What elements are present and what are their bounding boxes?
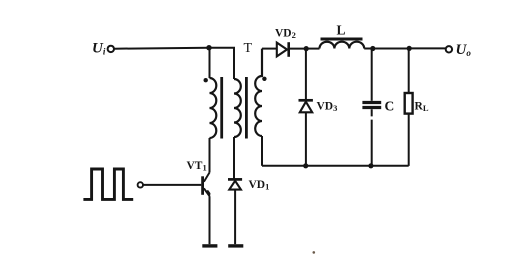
diode VD1 bbox=[228, 178, 242, 181]
caption speck bbox=[313, 251, 316, 254]
ground (emitter) bbox=[202, 244, 217, 247]
winding W2 middle bbox=[234, 79, 241, 137]
wire: RL down to bottom rail bbox=[408, 114, 410, 166]
svg-text:VD1: VD1 bbox=[249, 179, 270, 192]
wire: VD3 to node E bbox=[305, 112, 307, 166]
svg-text:VD2: VD2 bbox=[275, 28, 296, 41]
output terminal Uo bbox=[446, 46, 452, 52]
wire: drive terminal to base bbox=[143, 184, 201, 186]
svg-text:L: L bbox=[337, 23, 346, 38]
svg-text:VT1: VT1 bbox=[187, 160, 207, 173]
polarity dot W1 bbox=[204, 78, 208, 82]
node E bbox=[303, 163, 308, 168]
wire: collector to winding W1 bbox=[209, 138, 211, 173]
square wave source bbox=[83, 169, 133, 199]
winding W1 left bbox=[210, 78, 217, 138]
core bar 2 bbox=[245, 77, 248, 139]
inductor L coil bbox=[320, 42, 365, 49]
inductor L core bar bbox=[321, 38, 363, 41]
svg-text:C: C bbox=[385, 99, 395, 114]
winding W3 secondary bbox=[255, 49, 262, 136]
node C bbox=[370, 46, 375, 51]
wire: winding W2 bottom to VD1 bbox=[233, 137, 235, 179]
wire: inductor to node C bbox=[364, 48, 373, 50]
input terminal Ui bbox=[108, 46, 114, 52]
wire: VD1 to ground bbox=[234, 190, 236, 245]
drive terminal bbox=[138, 182, 143, 187]
wire: Ui terminal to node A bbox=[114, 48, 209, 49]
wire: VD2 to node B bbox=[289, 48, 307, 50]
diode VD3 bbox=[299, 99, 313, 102]
wire: node A down to reset winding bbox=[209, 48, 211, 78]
resistor RL bbox=[405, 93, 413, 114]
ground (VD1) bbox=[228, 244, 243, 247]
wire: secondary top to VD2 bbox=[262, 48, 277, 50]
wire: node D to output terminal bbox=[409, 47, 446, 49]
wire: node D down to RL bbox=[408, 48, 410, 93]
transistor VT1 bbox=[201, 176, 204, 195]
svg-text:VD3: VD3 bbox=[317, 101, 338, 114]
core bar 1 bbox=[220, 77, 223, 139]
wire: secondary bottom bbox=[261, 136, 263, 166]
wire: emitter down bbox=[209, 196, 211, 244]
wire: node A to primary winding top bbox=[209, 48, 234, 79]
svg-text:RL: RL bbox=[415, 101, 429, 114]
wire: node B down to VD3 bbox=[305, 49, 307, 99]
node D bbox=[407, 46, 412, 51]
diode VD2 bbox=[277, 43, 287, 57]
node A bbox=[206, 45, 211, 50]
wire: node C to node D bbox=[373, 48, 409, 50]
svg-text:Ui: Ui bbox=[92, 41, 106, 57]
wire: bottom output rail bbox=[262, 165, 409, 167]
wire: node B to inductor bbox=[306, 48, 319, 50]
svg-text:Uo: Uo bbox=[456, 42, 472, 58]
capacitor C bbox=[362, 101, 381, 104]
node B bbox=[304, 46, 309, 51]
polarity dot W3 bbox=[262, 77, 266, 81]
wire: capacitor to node F bbox=[371, 109, 373, 166]
node F bbox=[368, 163, 373, 168]
wire: node C down to capacitor bbox=[371, 49, 373, 101]
svg-text:T: T bbox=[244, 41, 253, 56]
